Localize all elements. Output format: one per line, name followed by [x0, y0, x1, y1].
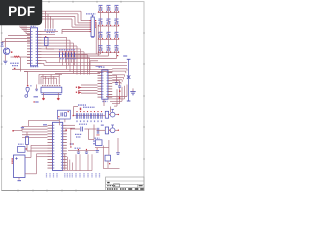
- switch S4: [99, 19, 103, 20]
- label: [43, 124, 47, 125]
- wire corner: [43, 63, 45, 65]
- label: [10, 62, 19, 64]
- keypad row stubs with junction dots: [95, 20, 96, 21]
- frame tick: [1, 126, 3, 128]
- wires left of U2: [81, 84, 98, 86]
- switch S5: [107, 19, 111, 20]
- array element: [93, 113, 95, 119]
- capacitor: [85, 151, 88, 153]
- junction dot: [117, 55, 118, 56]
- RP1 pin dot: [90, 20, 91, 21]
- rail: [12, 68, 113, 70]
- bottom row dark text: [107, 188, 118, 190]
- array element: [96, 113, 98, 119]
- small rev box: [114, 184, 120, 187]
- keypad column exits: [100, 53, 102, 54]
- net labels: [45, 29, 56, 31]
- keypad column wire: [100, 5, 102, 52]
- red diodes: [78, 86, 81, 89]
- wire down right of U3: [64, 154, 66, 170]
- wire: [42, 13, 78, 15]
- title text: [107, 185, 115, 187]
- frame tick: [143, 63, 145, 65]
- array element: [100, 113, 102, 119]
- wire drop: [52, 19, 54, 29]
- RP1 top pin: [92, 14, 94, 16]
- sheet border frame: [2, 2, 144, 191]
- wire: [75, 24, 91, 26]
- frame tick: [1, 95, 3, 97]
- driver cell A: transistor: [110, 112, 115, 117]
- rail: [55, 73, 100, 75]
- driver cell B: top pin: [111, 124, 114, 126]
- switch S6: [115, 19, 119, 20]
- vertical wire + cap: [117, 138, 119, 153]
- U3 pin: [48, 164, 53, 166]
- title text: [107, 182, 109, 183]
- keypad column wire: [108, 5, 110, 52]
- IC U1 body: [31, 28, 38, 66]
- wire down right of U3: [71, 162, 73, 170]
- resistor row labels: [59, 49, 75, 51]
- rail: [24, 71, 113, 73]
- wire: [97, 25, 99, 56]
- connecting wire: [95, 147, 109, 149]
- frame bottom line: [2, 190, 144, 192]
- label: [101, 125, 104, 126]
- net label: [99, 173, 101, 178]
- wire: [72, 128, 81, 130]
- wire: [62, 28, 91, 30]
- wire: [84, 128, 96, 130]
- component box U5: [96, 140, 103, 146]
- array element: [75, 113, 77, 119]
- cap below box: [95, 150, 99, 152]
- wire: [110, 107, 112, 113]
- U3 pin: [48, 124, 53, 126]
- switch S7: [99, 32, 103, 33]
- resistor: [68, 52, 70, 57]
- U3 pin: [48, 167, 53, 169]
- cell B input wire: [97, 129, 106, 131]
- wire through row: [74, 115, 104, 117]
- wire down: [87, 154, 89, 170]
- U3 pin: [48, 153, 53, 155]
- red diamonds: [42, 97, 45, 100]
- wire down right of U3: [69, 160, 71, 170]
- row K to cell A wire: [103, 115, 105, 117]
- U3 pin: [48, 144, 53, 146]
- wire down: [91, 154, 93, 170]
- frame tick: [1, 158, 3, 160]
- U3 pin: [48, 127, 53, 129]
- net labels: [47, 31, 55, 33]
- wire: [77, 14, 79, 23]
- net label: [91, 173, 93, 178]
- label R: [21, 127, 24, 128]
- wire: [72, 26, 91, 28]
- keypad column wire: [116, 5, 118, 52]
- switch S9: [115, 32, 119, 33]
- title text: [139, 185, 143, 186]
- top bits: [70, 143, 71, 144]
- RP1 pin dot: [90, 29, 91, 30]
- ground symbol: [3, 60, 7, 62]
- wire down: [75, 154, 77, 170]
- resistor pack RP1: [91, 17, 94, 37]
- RP1 bottom label: [91, 37, 94, 38]
- keypad row wire: [98, 12, 119, 14]
- keypad row wire: [98, 52, 119, 54]
- capacitor C pair: [80, 127, 82, 132]
- red junction: [12, 130, 14, 132]
- ground symbol right: [130, 91, 135, 93]
- below U2: [103, 99, 105, 106]
- U3 pin: [48, 141, 53, 143]
- wire: [78, 22, 91, 24]
- resistor: [65, 52, 67, 57]
- U2 label: [99, 66, 105, 68]
- wire drop: [47, 14, 49, 29]
- switch S2: [107, 5, 111, 6]
- wires from badge to U1 left: [19, 26, 21, 28]
- array element: [89, 113, 91, 119]
- driver cell B: transistor: [110, 128, 115, 133]
- wire drop: [50, 16, 52, 28]
- wire: [42, 10, 81, 12]
- header pin number band: [42, 85, 61, 87]
- svg-text:PDF: PDF: [8, 4, 35, 19]
- capacitors C left: [1, 42, 4, 44]
- wires right of U3: [67, 124, 75, 126]
- driver cell A: output wire: [115, 114, 118, 116]
- resistor: [59, 52, 61, 57]
- wires into header: [42, 74, 44, 84]
- wire to crystal area: [29, 119, 60, 121]
- net label: [79, 173, 81, 178]
- wire: [71, 19, 73, 27]
- U3 pin: [48, 130, 53, 132]
- red mark: [65, 129, 67, 131]
- component box B2: [105, 155, 111, 161]
- wires from U1 right pins: [42, 31, 59, 33]
- net label: [69, 173, 71, 178]
- frame tick: [72, 1, 74, 3]
- bottom rails: [62, 170, 92, 172]
- resistor: [62, 52, 64, 57]
- red mark: [14, 68, 16, 70]
- crystal circuit Y1: [58, 110, 71, 119]
- wire drop: [45, 11, 47, 28]
- caps right of U2: [112, 74, 116, 76]
- frame tick: [143, 126, 145, 128]
- wire: [62, 31, 91, 33]
- switch S10: [99, 45, 103, 46]
- array element: [82, 113, 84, 119]
- red junction: [70, 128, 71, 129]
- transistor Q1: [3, 48, 9, 54]
- net label: [71, 173, 73, 178]
- RP1 label: [86, 13, 96, 15]
- switch S11: [107, 45, 111, 46]
- wires above U2: [90, 60, 98, 62]
- U3 pin: [48, 159, 53, 161]
- battery BT1: [14, 155, 26, 178]
- U1 sublabel: [30, 66, 38, 68]
- frame tick: [48, 1, 50, 3]
- frame tick: [120, 1, 122, 3]
- IC U2 body: [102, 70, 108, 99]
- keypad row wire: [98, 25, 119, 27]
- frame tick: [24, 1, 26, 3]
- net label: [66, 173, 68, 178]
- left wires of U1: [8, 35, 31, 37]
- driver cell A: box: [105, 111, 108, 118]
- net label: [75, 173, 77, 178]
- cell B input cap pair: [96, 128, 98, 134]
- U3 pin: [48, 150, 53, 152]
- blue cap net right: [128, 60, 130, 102]
- net label: [46, 173, 48, 178]
- capacitor: [77, 151, 80, 153]
- red mark: [119, 97, 120, 99]
- lower nest sweeping left: [126, 85, 128, 97]
- frame tick: [143, 95, 145, 97]
- LCD header body: [41, 87, 62, 93]
- wire corner: [45, 61, 47, 63]
- switch S3: [115, 5, 119, 6]
- component U4 small: [45, 38, 49, 46]
- resistor box R vertical: [26, 137, 29, 145]
- right wire stack: [112, 68, 127, 70]
- RP1 pin dot: [90, 31, 91, 32]
- battery wires: [25, 157, 31, 159]
- red vertical label: [11, 158, 13, 164]
- frame tick: [143, 32, 145, 34]
- diode D1: [24, 71, 28, 73]
- driver cell B: box: [105, 127, 108, 134]
- RP1 pin dot: [90, 27, 91, 28]
- horizontal wire: [68, 149, 95, 151]
- U2 sublabel: [102, 100, 107, 102]
- net label: [83, 173, 85, 178]
- frame tick: [1, 63, 3, 65]
- red mark: [80, 108, 81, 111]
- frame tick: [61, 190, 63, 192]
- wire: [80, 11, 82, 20]
- value labels: [60, 58, 76, 60]
- wire: [73, 107, 75, 116]
- labels: [75, 133, 82, 135]
- switch S1: [99, 5, 103, 6]
- U3 pin: [48, 136, 53, 138]
- PDF badge: [0, 0, 42, 25]
- title block: [106, 177, 144, 191]
- U3 pin: [48, 139, 53, 141]
- net label: [78, 104, 86, 106]
- frame tick: [1, 32, 3, 34]
- labels above row: [83, 106, 95, 108]
- left drop: [70, 130, 72, 146]
- vertical curtain wires: [66, 37, 68, 69]
- keypad row wire: [98, 38, 119, 40]
- nested wires left of U3: [22, 125, 48, 127]
- D1 label: [34, 101, 35, 102]
- net label: [53, 173, 55, 178]
- switch S8: [107, 32, 111, 33]
- driver cell B: output wire: [115, 129, 118, 131]
- wire: [81, 20, 91, 22]
- frame tick: [96, 1, 98, 3]
- label: [12, 65, 18, 67]
- wire down: [79, 154, 81, 170]
- red mark: [11, 51, 13, 53]
- frame tick: [17, 190, 19, 192]
- red mark: [119, 90, 120, 92]
- red mark: [109, 163, 110, 164]
- resistor: [74, 52, 76, 57]
- frame tick: [75, 190, 77, 192]
- frame tick: [46, 190, 48, 192]
- wire: [61, 29, 63, 34]
- U3 pin: [48, 161, 53, 163]
- frame tick: [143, 158, 145, 160]
- array element: [79, 113, 81, 119]
- net label: [56, 173, 58, 178]
- plus mark: [15, 158, 17, 160]
- wire: [42, 15, 75, 17]
- wire: [12, 68, 21, 70]
- net label: [64, 173, 66, 178]
- C label: [79, 123, 87, 125]
- switch S12: [115, 45, 119, 46]
- wire: [95, 22, 97, 54]
- driver cell A: top pin: [111, 108, 114, 110]
- frame tick: [32, 190, 34, 192]
- wire: [4, 55, 6, 61]
- wires from battery to U3: [31, 144, 48, 146]
- U3 pin: [48, 147, 53, 149]
- net label: [95, 173, 97, 178]
- RP1 pin dot: [90, 22, 91, 23]
- U3 pin: [48, 133, 53, 135]
- net label: [87, 173, 89, 178]
- U3 pin: [48, 156, 53, 158]
- vertical wires: [102, 146, 104, 169]
- resistor R reset: [14, 56, 20, 58]
- array element: [86, 113, 88, 119]
- component above battery: [18, 147, 26, 153]
- wire: [42, 18, 72, 20]
- RP1 pin dot: [90, 24, 91, 25]
- rail: [44, 64, 127, 66]
- net label: [49, 173, 51, 178]
- wire: [20, 58, 22, 72]
- cap left of header: [35, 88, 38, 90]
- wire: [74, 106, 79, 108]
- IC U3 body: [53, 122, 63, 170]
- wire down right of U3: [66, 157, 68, 170]
- U1 label: [31, 25, 36, 27]
- resistor: [71, 52, 73, 57]
- wire: [74, 16, 76, 25]
- U1 pins: [27, 31, 31, 33]
- rail: [46, 62, 127, 64]
